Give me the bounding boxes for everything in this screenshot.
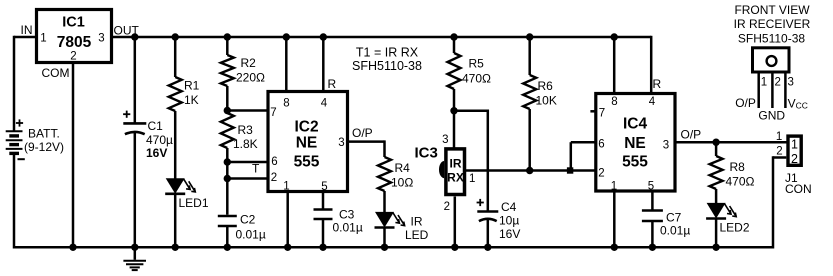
svg-text:2: 2 xyxy=(791,152,798,166)
svg-text:470µ: 470µ xyxy=(146,133,173,147)
wire LED1 to bottom rail xyxy=(174,194,177,248)
svg-text:LED2: LED2 xyxy=(720,221,750,235)
wire R8 top lead xyxy=(715,142,718,156)
svg-text:BATT.: BATT. xyxy=(28,127,60,141)
svg-text:5: 5 xyxy=(321,181,327,193)
svg-text:4: 4 xyxy=(321,98,328,110)
wire R4 to IR LED xyxy=(383,191,386,212)
svg-text:0.01µ: 0.01µ xyxy=(333,221,363,235)
junction C4-bottom rail xyxy=(484,244,491,251)
wire IC2 pin5 stem xyxy=(322,192,325,210)
junction IC3 pin2-bottom rail xyxy=(451,244,458,251)
capacitor C1 470u 16V xyxy=(123,122,146,125)
junction pin2 tap xyxy=(224,175,231,182)
svg-text:8: 8 xyxy=(611,96,617,108)
junction R2-R3-pin7 xyxy=(224,107,231,114)
junction R6 on pin1 wire xyxy=(526,167,533,174)
wire IC4 pin8 riser xyxy=(613,37,616,94)
svg-text:2: 2 xyxy=(444,201,450,213)
resistor R6 10K xyxy=(523,75,536,109)
wire IC3 pin1 to IC4 pin2 xyxy=(465,169,596,172)
svg-text:NE: NE xyxy=(296,135,318,152)
svg-text:3: 3 xyxy=(98,33,104,45)
svg-text:C4: C4 xyxy=(501,200,517,214)
svg-text:1: 1 xyxy=(611,180,617,192)
svg-text:3: 3 xyxy=(338,137,344,149)
svg-text:1: 1 xyxy=(761,77,767,89)
junction C7-bottom rail xyxy=(649,244,656,251)
svg-text:2: 2 xyxy=(776,145,782,157)
svg-text:R8: R8 xyxy=(730,160,746,174)
wire top rail (+5V) from IC1 OUT to IC4 pin4 xyxy=(112,36,652,39)
wire C1 top lead xyxy=(134,37,137,123)
svg-text:470Ω: 470Ω xyxy=(462,72,491,86)
svg-text:R5: R5 xyxy=(469,57,485,71)
wire R2 top lead xyxy=(226,37,229,55)
wire IC1 pin2 COM to ground rail xyxy=(72,63,75,248)
svg-text:C1: C1 xyxy=(148,119,164,133)
capacitor C7 0.01u xyxy=(642,209,663,212)
junction R8 on output wire xyxy=(712,139,719,146)
LED IR LED xyxy=(375,212,394,228)
svg-text:7805: 7805 xyxy=(57,34,92,51)
wire IC4 pin3 output to J1 pin1 xyxy=(675,141,787,144)
wire IC4 pin5 stem xyxy=(651,191,654,211)
wire pin7 of IC2 xyxy=(227,109,266,112)
svg-text:RX: RX xyxy=(447,171,464,185)
svg-text:7: 7 xyxy=(270,107,276,119)
resistor R1 1K xyxy=(169,77,182,111)
svg-text:1: 1 xyxy=(40,33,46,45)
IC4 pin 7 stub wire xyxy=(590,110,595,113)
junction COM-bottom rail xyxy=(69,244,76,251)
package pin 1 lead xyxy=(757,74,760,109)
wire R5 junction to C4 branch xyxy=(454,109,488,112)
junction top rail R5 xyxy=(450,33,457,40)
svg-text:16V: 16V xyxy=(146,146,167,160)
svg-text:220Ω: 220Ω xyxy=(236,71,265,85)
svg-text:SFH5110-38: SFH5110-38 xyxy=(352,59,422,73)
op-amp IC4 NE555 timer xyxy=(596,94,675,192)
svg-text:10Ω: 10Ω xyxy=(391,176,413,190)
junction top rail pin8 xyxy=(283,33,290,40)
wire IN to IC1 pin1 xyxy=(14,36,37,39)
LED2 emission arrows xyxy=(724,204,731,215)
wire R6 bottom lead xyxy=(528,109,531,171)
svg-text:IC2: IC2 xyxy=(294,119,318,136)
wire bottom rail (0V) xyxy=(14,246,773,249)
connector J1 CON xyxy=(788,136,801,166)
svg-text:7: 7 xyxy=(599,107,605,119)
svg-text:LED: LED xyxy=(405,228,429,242)
svg-text:IR: IR xyxy=(450,157,462,171)
junction top rail C1 xyxy=(131,33,138,40)
IR receiver package outline xyxy=(753,48,790,72)
wire J1 pin2 xyxy=(773,156,786,159)
junction LED1-bottom rail xyxy=(172,244,179,251)
wire IC4 pin1 stem xyxy=(613,191,616,247)
junction C1-bottom rail xyxy=(131,244,138,251)
wire R6 top lead xyxy=(528,37,531,75)
wire IC4 pin4 riser xyxy=(650,36,653,94)
junction top rail pin4 xyxy=(320,33,327,40)
svg-text:IR RECEIVER: IR RECEIVER xyxy=(734,17,811,31)
wire IC3 pin2 stem xyxy=(454,197,457,248)
svg-text:CON: CON xyxy=(785,182,812,196)
junction C3-bottom rail xyxy=(319,244,326,251)
svg-text:O/P: O/P xyxy=(681,128,702,142)
svg-text:R4: R4 xyxy=(395,161,411,175)
LED LED1 xyxy=(166,178,185,194)
wire IR LED to bottom rail xyxy=(383,228,386,248)
svg-text:T: T xyxy=(252,162,260,176)
battery minus sign xyxy=(18,158,25,160)
svg-text:4: 4 xyxy=(649,96,656,108)
svg-text:COM: COM xyxy=(42,66,70,80)
IC1 7805 voltage regulator xyxy=(37,10,112,63)
svg-text:3: 3 xyxy=(788,77,794,89)
junction IC2 pin1-bottom rail xyxy=(284,244,291,251)
wire R2 to R3 xyxy=(226,86,229,113)
wire pin2 of IC2 (T) xyxy=(227,177,266,180)
svg-text:NE: NE xyxy=(624,135,646,152)
wire R1 top lead xyxy=(174,37,177,77)
resistor R5 470ohm xyxy=(448,53,461,89)
wire left vertical battery top xyxy=(13,36,16,131)
svg-text:3: 3 xyxy=(442,134,448,146)
svg-text:6: 6 xyxy=(271,156,277,168)
svg-text:IC3: IC3 xyxy=(415,145,438,162)
wire left vertical battery bottom xyxy=(13,154,16,249)
svg-text:0.01µ: 0.01µ xyxy=(660,224,690,238)
svg-text:10K: 10K xyxy=(536,94,557,108)
svg-text:0.01µ: 0.01µ xyxy=(236,228,266,242)
junction top rail R2 xyxy=(224,33,231,40)
wire C1 bottom lead xyxy=(134,132,137,248)
svg-text:1: 1 xyxy=(469,173,475,185)
IR LED emission arrows xyxy=(393,213,400,224)
C1 plus sign xyxy=(123,113,130,115)
resistor R8 470ohm xyxy=(710,156,723,189)
svg-text:6: 6 xyxy=(598,138,604,150)
op-amp IC2 NE555 timer xyxy=(268,92,348,192)
svg-text:FRONT VIEW: FRONT VIEW xyxy=(734,3,810,17)
junction R3-pin6 xyxy=(224,158,231,165)
svg-text:IC1: IC1 xyxy=(62,15,85,31)
wire IC4 pin6-pin2 tie xyxy=(570,142,573,170)
svg-text:(9-12V): (9-12V) xyxy=(24,140,64,154)
svg-text:1: 1 xyxy=(791,138,798,152)
svg-text:555: 555 xyxy=(294,154,320,171)
junction top rail R1 xyxy=(172,33,179,40)
junction R5-C4 branch xyxy=(450,107,457,114)
svg-text:LED1: LED1 xyxy=(179,196,209,210)
svg-text:C3: C3 xyxy=(339,208,355,222)
wire C2 to bottom rail xyxy=(226,226,229,247)
svg-text:C2: C2 xyxy=(240,213,256,227)
wire IC2 pin8 riser xyxy=(285,37,288,92)
svg-text:10µ: 10µ xyxy=(499,214,519,228)
junction tie 6-2 on pin1 wire xyxy=(567,167,573,173)
junction top rail IC4 pin8 xyxy=(611,33,618,40)
svg-text:T1 = IR RX: T1 = IR RX xyxy=(356,46,419,60)
svg-text:8: 8 xyxy=(283,98,289,110)
wire C7 to bottom rail xyxy=(651,221,654,247)
capacitor C4 10u 16V xyxy=(477,210,498,213)
package pin 3 lead xyxy=(784,74,787,109)
svg-text:O/P: O/P xyxy=(735,96,756,110)
resistor R3 1.8K xyxy=(221,113,234,148)
junction top rail R6 xyxy=(526,33,533,40)
package pin 2 lead xyxy=(771,74,774,109)
LED LED2 xyxy=(707,203,726,219)
wire R3 to C2 xyxy=(226,148,229,215)
svg-text:C7: C7 xyxy=(666,211,682,225)
svg-text:470Ω: 470Ω xyxy=(726,175,755,189)
svg-text:1: 1 xyxy=(283,181,289,193)
svg-text:5: 5 xyxy=(648,180,654,192)
svg-text:2: 2 xyxy=(271,172,277,184)
svg-text:555: 555 xyxy=(622,154,648,171)
C4 plus sign xyxy=(477,202,484,204)
capacitor C2 0.01u xyxy=(218,215,237,218)
wire R8 to LED2 xyxy=(715,189,718,203)
svg-text:R1: R1 xyxy=(184,79,200,93)
resistor R4 10ohm xyxy=(378,157,391,191)
svg-text:16V: 16V xyxy=(499,227,520,241)
battery BATT 9-12V xyxy=(6,131,23,153)
svg-text:2: 2 xyxy=(775,77,781,89)
svg-text:R3: R3 xyxy=(238,123,254,137)
capacitor C3 0.01u xyxy=(314,208,333,211)
svg-text:O/P: O/P xyxy=(352,126,373,140)
resistor R2 220ohm xyxy=(221,55,234,86)
battery plus sign xyxy=(16,122,23,124)
wire IC2 pin3 output xyxy=(348,140,385,143)
wire R5 top lead xyxy=(453,37,456,53)
svg-text:R: R xyxy=(328,77,337,91)
svg-text:1K: 1K xyxy=(184,93,199,107)
wire C4 to bottom rail xyxy=(487,220,490,248)
wire R1 to LED1 xyxy=(174,111,177,179)
ground xyxy=(123,247,146,270)
junction C2-bottom rail xyxy=(224,244,231,251)
junction IC4 pin1-bottom rail xyxy=(611,244,618,251)
wire LED2 to bottom rail xyxy=(715,219,718,248)
svg-text:1.8K: 1.8K xyxy=(233,137,258,151)
svg-text:1: 1 xyxy=(776,131,782,143)
wire R5 to IC3 pin3 xyxy=(453,89,456,149)
svg-text:SFH5110-38: SFH5110-38 xyxy=(738,31,805,45)
junction LED2-bottom rail xyxy=(712,244,719,251)
svg-text:GND: GND xyxy=(758,108,785,122)
LED1 emission arrows xyxy=(184,179,191,190)
wire C3 to bottom rail xyxy=(322,219,325,247)
svg-text:2: 2 xyxy=(598,167,604,179)
svg-text:R6: R6 xyxy=(538,79,554,93)
svg-text:3: 3 xyxy=(663,139,669,151)
svg-text:2: 2 xyxy=(70,51,76,63)
svg-text:R2: R2 xyxy=(241,56,257,70)
wire IC2 pin1 stem xyxy=(286,192,289,248)
wire pin6 of IC2 xyxy=(227,161,266,164)
svg-text:IC4: IC4 xyxy=(623,116,648,133)
junction IR LED-bottom rail xyxy=(381,244,388,251)
svg-text:IR: IR xyxy=(411,214,423,228)
transistor IC3 IR receiver module xyxy=(439,149,464,195)
svg-text:IN: IN xyxy=(21,23,33,37)
wire IC2 pin4 riser xyxy=(322,37,325,92)
svg-text:R: R xyxy=(653,77,662,91)
